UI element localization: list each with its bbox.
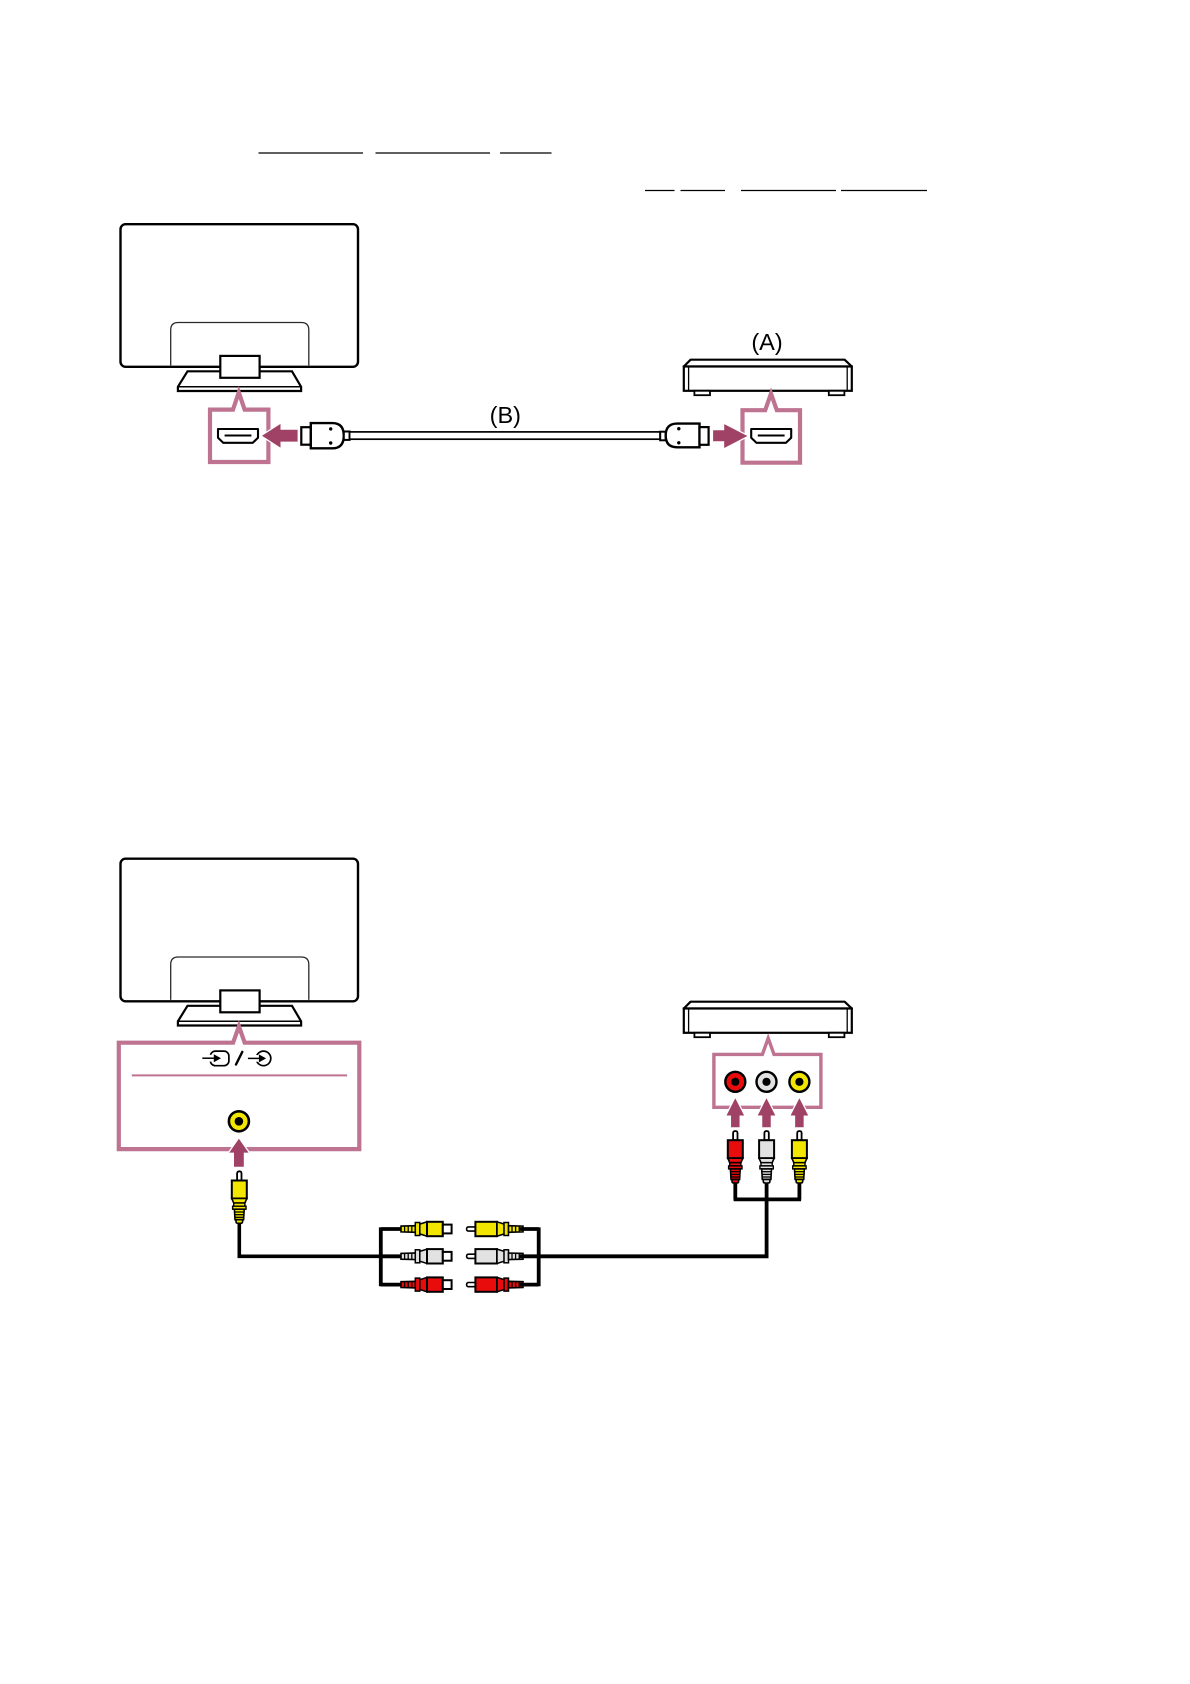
extension plug white	[467, 1249, 523, 1263]
HDMI port icon player	[751, 429, 791, 443]
yellow RCA plug to player	[792, 1131, 807, 1183]
extension plug red	[467, 1277, 523, 1291]
arrow into player red jack	[727, 1098, 745, 1127]
extension plug yellow	[467, 1222, 523, 1236]
callout box player video/audio outputs	[714, 1038, 821, 1107]
link underline row2 seg1	[645, 190, 675, 192]
extension jack white	[401, 1249, 452, 1263]
red audio jack on player	[725, 1072, 745, 1092]
wire from yellow plug to extension	[239, 1223, 380, 1256]
link underline row1 seg2	[376, 152, 491, 154]
arrow into player yellow jack	[791, 1098, 809, 1127]
slash separator	[236, 1052, 242, 1065]
extension jack yellow	[401, 1222, 452, 1236]
callout box TV video/audio inputs (diagram 2)	[119, 1026, 359, 1149]
arrow into player white jack	[758, 1098, 776, 1127]
TV (diagram 1)	[121, 224, 359, 391]
HDMI cable cord	[350, 432, 661, 439]
HDMI port icon TV	[218, 429, 258, 443]
callout box player HDMI port	[743, 394, 801, 463]
yellow video jack on TV	[229, 1111, 249, 1131]
link underline row1 seg3	[500, 152, 552, 154]
arrow into TV video jack	[229, 1139, 248, 1167]
BD/DVD player device 2	[684, 1002, 852, 1037]
wire from extension to player plugs	[539, 1180, 801, 1256]
callout box TV HDMI port (diagram 1)	[210, 392, 268, 462]
svg-text:(A): (A)	[751, 329, 782, 355]
HDMI cable (B) plug left	[301, 423, 349, 448]
audio input icon	[248, 1051, 271, 1066]
extension right bracket	[519, 1227, 539, 1286]
svg-text:(B): (B)	[490, 402, 521, 428]
HDMI cable (B) plug right	[660, 424, 708, 448]
white audio jack on player	[757, 1072, 777, 1092]
extension left bracket	[381, 1227, 402, 1286]
link underline row2 seg3	[741, 190, 836, 192]
arrow into TV HDMI	[262, 424, 298, 448]
video input icon	[202, 1051, 229, 1066]
yellow RCA plug to TV	[232, 1171, 247, 1223]
link underline row2 seg2	[681, 190, 726, 192]
extension jack red	[401, 1277, 452, 1291]
red RCA plug to player	[728, 1131, 743, 1183]
white RCA plug to player	[759, 1131, 774, 1183]
TV (diagram 2)	[121, 859, 359, 1026]
link underline row1 seg1	[259, 152, 364, 154]
link underline row2 seg4	[841, 190, 927, 192]
arrow into player HDMI	[713, 424, 747, 448]
pink separator line	[132, 1074, 347, 1076]
BD/DVD player device A	[684, 360, 852, 395]
yellow video jack on player	[789, 1072, 809, 1092]
